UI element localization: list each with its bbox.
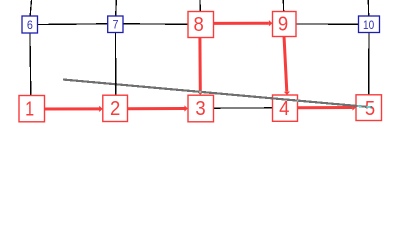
svg-text:6: 6 — [27, 18, 33, 32]
wire stub above node 8 — [199, 0, 201, 13]
node 4 — [273, 95, 298, 121]
wire edge 7-2 — [114, 24, 117, 109]
svg-text:5: 5 — [365, 98, 375, 120]
wire stub above node 6 — [30, 0, 32, 18]
node 1 — [19, 96, 45, 122]
wire edge 9-10 — [284, 23, 369, 25]
node 6 — [22, 16, 38, 33]
red path edge 9-4 — [284, 36, 287, 91]
node 9 — [273, 12, 297, 37]
node 3 — [188, 95, 214, 122]
red path edge 8-3 — [198, 37, 201, 91]
cyan xor dot at node 4 right edge — [297, 100, 298, 102]
wire stub above node 10 — [367, 0, 369, 17]
wire edge 6-7 — [30, 23, 116, 26]
node 5 — [356, 95, 382, 121]
cyan xor segment near node 5 left — [358, 105, 362, 107]
red path edge 1-2 — [32, 107, 100, 110]
gray rubber-band line — [63, 80, 372, 108]
red path edge 8-9 — [213, 22, 269, 25]
wire edge 7-8 — [115, 23, 200, 26]
red path edge 2-3 — [115, 107, 185, 110]
node 7 — [108, 16, 123, 33]
svg-text:2: 2 — [110, 98, 120, 120]
svg-text:1: 1 — [25, 98, 34, 120]
svg-text:10: 10 — [363, 18, 374, 32]
svg-text:9: 9 — [278, 14, 288, 36]
wire edge 6-1 — [30, 25, 31, 109]
wire edge 10-5 — [368, 24, 370, 108]
node 2 — [103, 95, 128, 121]
svg-text:8: 8 — [193, 14, 203, 36]
cyan xor segment on edge 8-3 crossing — [199, 91, 201, 93]
wire stub above node 7 — [115, 0, 118, 17]
wire stub above node 9 — [282, 0, 284, 13]
node 10 — [359, 16, 380, 33]
node 8 — [188, 12, 214, 38]
svg-text:4: 4 — [279, 98, 289, 120]
svg-text:7: 7 — [113, 17, 119, 31]
svg-text:3: 3 — [195, 98, 205, 120]
cyan xor segment over node 5 — [367, 106, 371, 108]
wire 7-2 repaint over gray crossing — [115, 82, 117, 87]
red path edge 4-5 — [297, 106, 352, 109]
wire edge 3-4 — [201, 107, 285, 109]
